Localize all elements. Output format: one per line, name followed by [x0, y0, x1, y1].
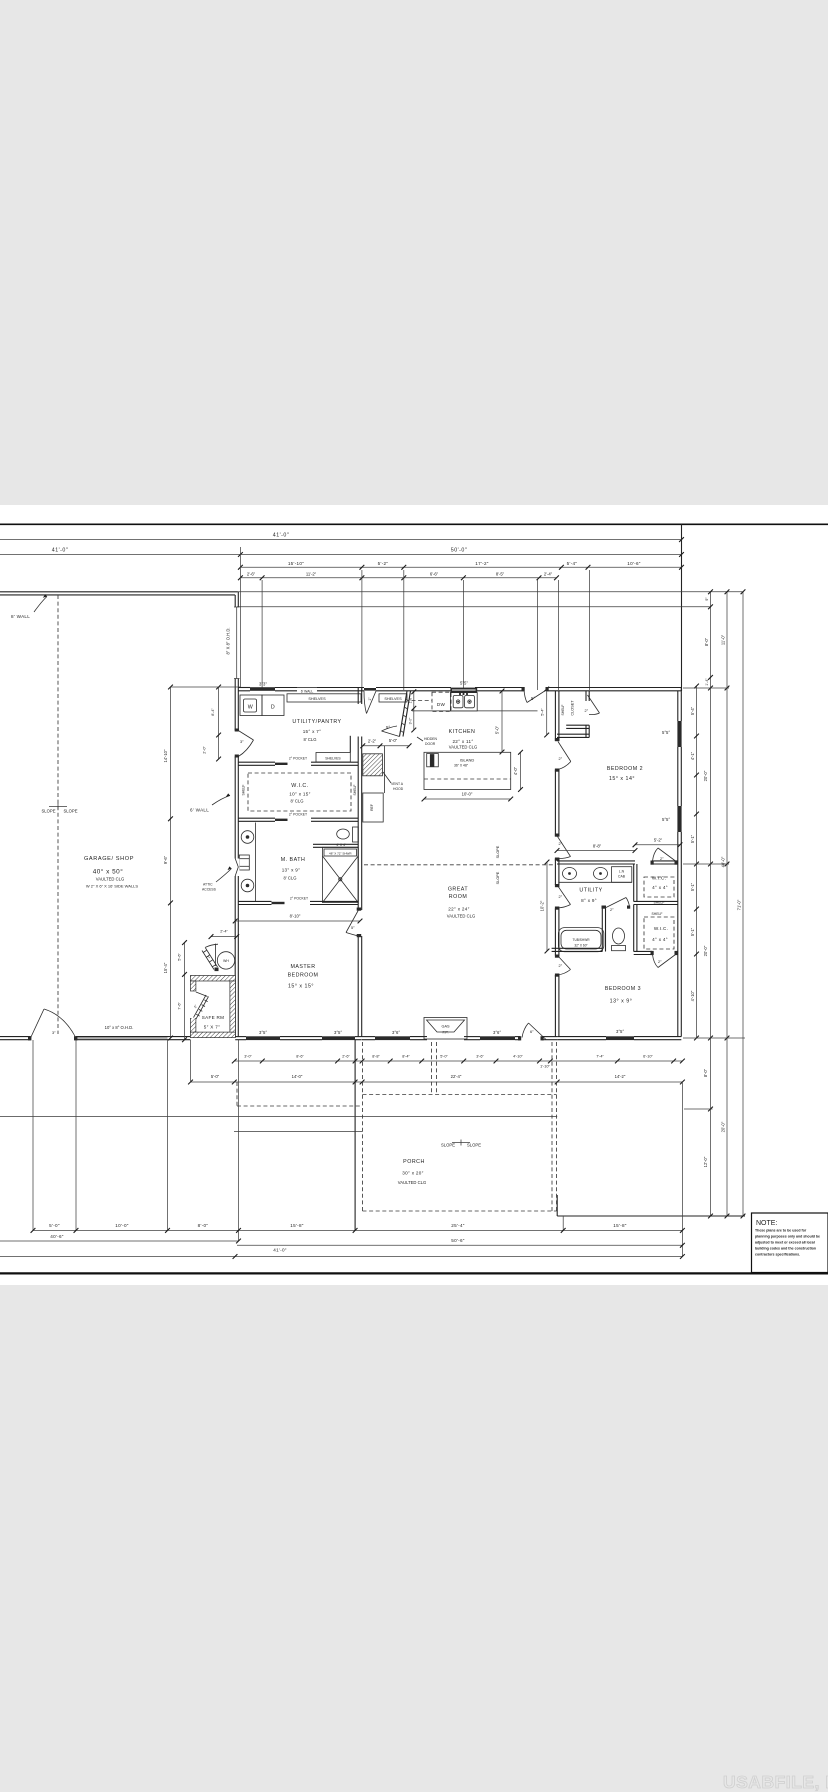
- left dim column (5'-6",7'-6"): [178, 940, 187, 1042]
- svg-text:adjusted to meet or exceed all: adjusted to meet or exceed all local: [755, 1241, 815, 1245]
- WIC2: [634, 905, 652, 955]
- svg-text:building codes and the constru: building codes and the construction: [755, 1247, 816, 1251]
- svg-text:M. BATH: M. BATH: [281, 857, 306, 863]
- bath/bedroom3 wall: [552, 948, 603, 951]
- svg-text:BEDROOM 2: BEDROOM 2: [607, 766, 643, 772]
- second bottom dim row: [188, 1074, 685, 1084]
- svg-text:14'-10": 14'-10": [163, 749, 168, 763]
- svg-text:MASTER: MASTER: [290, 964, 315, 970]
- svg-text:15'-8": 15'-8": [290, 1223, 304, 1228]
- svg-text:5° X 7°: 5° X 7°: [204, 1025, 221, 1030]
- sheet bottom border: [0, 1272, 828, 1274]
- safe room label: [202, 1015, 225, 1030]
- bedroom2 lower door: [558, 837, 571, 859]
- svg-text:ROOM: ROOM: [449, 894, 467, 900]
- 10x8 OHD opening (thin sill): [76, 1037, 168, 1039]
- great room ridge dashed: [364, 864, 555, 866]
- svg-text:12'-0": 12'-0": [703, 1156, 708, 1167]
- right-side connectors: [683, 688, 745, 1109]
- svg-text:4'-10": 4'-10": [513, 1055, 523, 1059]
- svg-text:CLOSET: CLOSET: [571, 700, 575, 716]
- dishwasher dashed: [432, 692, 451, 711]
- svg-text:40'-0": 40'-0": [721, 856, 726, 867]
- svg-text:22'-4": 22'-4": [451, 1074, 462, 1079]
- garage slope marks: [42, 804, 78, 814]
- house north wall (double) with openings: [238, 688, 681, 691]
- svg-text:3°5°: 3°5°: [259, 1030, 267, 1035]
- svg-text:SHELF: SHELF: [242, 785, 246, 796]
- svg-text:10'-6": 10'-6": [627, 561, 641, 566]
- right-side dimension column A' (room dims): [690, 684, 699, 1041]
- m.bath vanity: [239, 823, 255, 902]
- svg-text:2°: 2°: [610, 908, 614, 912]
- svg-text:8'-4": 8'-4": [211, 708, 215, 716]
- tub/shwr: [558, 928, 603, 952]
- closet door: [588, 695, 600, 715]
- garage top wall (double): [0, 592, 238, 595]
- east wall windows: [677, 721, 681, 747]
- svg-text:3°: 3°: [240, 740, 244, 744]
- utility bath vanity: [558, 867, 631, 883]
- interior dim column left of pantry: [171, 685, 241, 762]
- svg-text:5°: 5°: [351, 926, 355, 930]
- WIC1 (bedroom2 closet SE): [634, 864, 678, 905]
- pocket door pantry/WIC wall: [238, 762, 358, 765]
- pantry angled east wall (hidden door wall): [400, 691, 411, 737]
- svg-text:5'-0": 5'-0": [211, 1074, 220, 1079]
- svg-text:8'-10": 8'-10": [290, 914, 301, 919]
- kitchen counter along north wall: [412, 710, 538, 712]
- WIC/M.BATH wall with pocket door: [238, 818, 358, 821]
- svg-text:20'-0": 20'-0": [721, 1121, 726, 1132]
- top dimension row 1: 41'-0": [0, 533, 684, 542]
- porch door from great room: [522, 1023, 546, 1040]
- svg-text:3°6°: 3°6°: [392, 1030, 400, 1035]
- svg-text:3°3°: 3°3°: [259, 682, 267, 687]
- svg-text:14'-2": 14'-2": [615, 1074, 626, 1079]
- svg-text:40'-6": 40'-6": [50, 1234, 64, 1239]
- svg-text:2'-4": 2'-4": [220, 930, 228, 934]
- master bedroom 8'-10" dim: [233, 914, 363, 924]
- svg-text:W: W: [248, 705, 254, 711]
- svg-text:4' X 4': 4' X 4': [336, 843, 346, 847]
- svg-text:NOTE:: NOTE:: [756, 1220, 777, 1227]
- svg-text:32" X 60": 32" X 60": [574, 944, 587, 948]
- svg-text:15'-8": 15'-8": [613, 1223, 627, 1228]
- svg-text:6'-6": 6'-6": [430, 572, 439, 577]
- bedroom3 door: [558, 956, 571, 976]
- safe room hatched walls: [190, 976, 235, 1038]
- svg-text:25'-4": 25'-4": [451, 1223, 465, 1228]
- svg-text:6°: 6°: [530, 1030, 534, 1034]
- svg-text:WH: WH: [223, 959, 229, 963]
- right-side dimension column A: [703, 589, 713, 1218]
- bedroom2 / great room wall: [555, 691, 559, 1037]
- house east wall (double): [678, 688, 682, 1037]
- svg-text:17'-2": 17'-2": [475, 561, 489, 566]
- svg-text:L.N: L.N: [619, 870, 625, 874]
- sheet top border: [0, 523, 828, 525]
- svg-text:10° x 15°: 10° x 15°: [289, 792, 310, 797]
- svg-text:8'-8": 8'-8": [593, 844, 602, 849]
- svg-text:3°5°: 3°5°: [334, 1030, 342, 1035]
- range with vent hood: [363, 754, 383, 776]
- svg-text:8'-5": 8'-5": [496, 572, 505, 577]
- porch left solid edge: [354, 1040, 356, 1231]
- island 10'-0" dim: [422, 792, 514, 802]
- 6' wall note: [190, 793, 230, 812]
- master south wall windows: [246, 1036, 280, 1040]
- svg-text:22° x 24°: 22° x 24°: [448, 907, 469, 912]
- svg-text:5'-1": 5'-1": [690, 882, 695, 891]
- shelves at pantry south wall: [349, 736, 351, 753]
- dimension extension verticals to house north wall: [240, 547, 589, 690]
- bedroom3 south wall + window: [557, 1037, 681, 1040]
- great room label: [447, 887, 475, 919]
- svg-text:36" X 48": 36" X 48": [454, 764, 469, 768]
- svg-text:REF: REF: [370, 804, 374, 811]
- svg-text:8° x 9°: 8° x 9°: [581, 898, 597, 903]
- svg-text:CAB: CAB: [618, 875, 626, 879]
- bottom wall dim row (openings): [232, 1055, 685, 1069]
- island: [424, 752, 511, 789]
- utility/pantry W and D appliances: [240, 695, 284, 716]
- svg-text:W.I.C.: W.I.C.: [654, 926, 668, 931]
- svg-text:SLOPE: SLOPE: [496, 871, 500, 884]
- svg-text:SLOPE: SLOPE: [441, 1143, 455, 1148]
- bottom dim row 2 right 50'-6": [237, 1238, 685, 1248]
- hidden door leaf and arc: [382, 726, 400, 737]
- svg-text:8'-8": 8'-8": [372, 1055, 380, 1059]
- bedroom3 label: [605, 986, 641, 1005]
- svg-text:5'-0": 5'-0": [49, 1223, 60, 1228]
- svg-text:15° x 7°: 15° x 7°: [303, 729, 322, 734]
- svg-text:5'-0": 5'-0": [495, 725, 500, 734]
- refrigerator: [363, 746, 385, 822]
- svg-text:2'-6": 2'-6": [342, 1055, 350, 1059]
- bottom dim row 1: [31, 1223, 685, 1233]
- svg-text:8'-0": 8'-0": [198, 1223, 209, 1228]
- kitchen 5'-0" vertical dim: [495, 689, 505, 755]
- svg-text:3°5°: 3°5°: [616, 1029, 624, 1034]
- svg-text:2°: 2°: [658, 960, 662, 964]
- right-side dimension column C: 71'-0": [737, 589, 746, 1218]
- svg-text:2°: 2°: [585, 709, 589, 713]
- svg-text:5'-2": 5'-2": [654, 838, 663, 843]
- svg-text:48" X 72" SHWR: 48" X 72" SHWR: [329, 852, 352, 856]
- svg-text:40° x 50°: 40° x 50°: [93, 868, 124, 876]
- bottom porch line to right columns: [557, 1215, 745, 1217]
- svg-text:SHELF: SHELF: [561, 705, 565, 716]
- svg-text:SHELVES: SHELVES: [384, 697, 402, 701]
- 8x8 OHD opening jambs: [234, 607, 240, 679]
- svg-text:2°: 2°: [559, 757, 563, 761]
- svg-text:W.I.C.: W.I.C.: [291, 783, 308, 789]
- svg-text:ATTIC: ATTIC: [203, 883, 213, 887]
- svg-text:2° POCKET: 2° POCKET: [289, 813, 307, 817]
- 2'-2" and 5'-0" dims at range corner: [360, 738, 411, 748]
- svg-text:13° x 9°: 13° x 9°: [610, 999, 633, 1005]
- porch dashed outline: [237, 1042, 557, 1211]
- svg-text:2°: 2°: [559, 895, 563, 899]
- svg-text:3°6°: 3°6°: [493, 1030, 501, 1035]
- svg-text:SLOPE: SLOPE: [467, 1143, 481, 1148]
- svg-text:8'-6": 8'-6": [296, 1055, 304, 1059]
- svg-text:VAULTED CLG: VAULTED CLG: [96, 877, 124, 882]
- svg-text:15° x 15°: 15° x 15°: [288, 984, 314, 990]
- svg-text:BEDROOM: BEDROOM: [288, 973, 319, 979]
- svg-text:4° x 4°: 4° x 4°: [652, 885, 668, 890]
- svg-text:HIDDEN: HIDDEN: [424, 737, 438, 741]
- 8' wall note with arrow: [11, 594, 47, 619]
- m.bath/master wall with pocket door: [238, 901, 358, 904]
- top gray band: [0, 0, 828, 505]
- porch label: [398, 1159, 426, 1185]
- svg-text:2° POCKET: 2° POCKET: [289, 757, 307, 761]
- svg-text:50'-0": 50'-0": [451, 548, 468, 554]
- m.bath toilet: [337, 827, 359, 842]
- door jamb blocks: [28, 687, 678, 1040]
- master WIC room: [242, 773, 352, 811]
- roof eave lines above house: [237, 591, 743, 593]
- garage room label: [84, 856, 138, 889]
- north wall window (utility): [250, 687, 275, 691]
- svg-text:GARAGE/ SHOP: GARAGE/ SHOP: [84, 856, 134, 862]
- svg-text:2'-2": 2'-2": [368, 739, 377, 744]
- kitchen label: [449, 729, 478, 750]
- svg-text:41'-0": 41'-0": [273, 1248, 287, 1253]
- safe room door: [189, 992, 197, 1018]
- svg-text:1'-10": 1'-10": [540, 1065, 550, 1069]
- svg-text:15'-10": 15'-10": [288, 561, 304, 566]
- garage south wall with openings: [0, 1037, 190, 1040]
- toilet: [612, 928, 626, 951]
- svg-text:22° x 11°: 22° x 11°: [452, 739, 473, 744]
- svg-text:5°: 5°: [531, 696, 535, 701]
- svg-text:41'-0": 41'-0": [273, 533, 290, 539]
- great room south windows: [375, 1036, 410, 1040]
- garage east wall / house west wall: [235, 592, 238, 1037]
- svg-text:11'-2": 11'-2": [306, 572, 317, 577]
- bottom gray band: [0, 1285, 828, 1792]
- svg-text:VENT A: VENT A: [391, 782, 404, 786]
- svg-text:5'-4": 5'-4": [567, 561, 578, 566]
- svg-text:W.I.C.: W.I.C.: [652, 876, 666, 881]
- svg-text:TUB/SHWR: TUB/SHWR: [573, 938, 591, 942]
- great room south wall: [362, 1037, 557, 1040]
- svg-text:6'-10": 6'-10": [643, 1055, 653, 1059]
- svg-text:DOOR: DOOR: [425, 742, 436, 746]
- svg-text:3'-6": 3'-6": [476, 1055, 484, 1059]
- svg-text:8° X 8° O.H.D.: 8° X 8° O.H.D.: [226, 627, 231, 654]
- svg-text:1'-4": 1'-4": [705, 678, 709, 686]
- svg-text:UTILITY/PANTRY: UTILITY/PANTRY: [292, 719, 341, 725]
- shelves along pantry north wall: [287, 694, 407, 702]
- attic access note: [202, 859, 240, 892]
- kitchen back door: [524, 690, 547, 703]
- svg-text:DW: DW: [437, 702, 446, 707]
- svg-text:5'-1": 5'-1": [690, 834, 695, 843]
- patio slab line: [234, 1131, 362, 1133]
- svg-text:8'-4": 8'-4": [402, 1055, 410, 1059]
- svg-text:PORCH: PORCH: [403, 1159, 425, 1165]
- utility label: [579, 888, 602, 904]
- m.bath label: [281, 857, 306, 881]
- svg-text:USABFILE, LLC: USABFILE, LLC: [723, 1772, 828, 1792]
- svg-text:10'-0": 10'-0": [115, 1223, 129, 1228]
- safe room dim extension: [190, 1040, 192, 1082]
- svg-text:15'-4": 15'-4": [163, 962, 168, 973]
- gas fireplace: [424, 1018, 467, 1040]
- svg-text:SHELF: SHELF: [652, 912, 663, 916]
- svg-text:5'-6": 5'-6": [178, 953, 182, 961]
- svg-text:2°: 2°: [660, 857, 664, 861]
- master south wall segments: [235, 1037, 362, 1040]
- 2'-4" dim above WH: [209, 930, 240, 939]
- svg-text:41'-0": 41'-0": [52, 548, 69, 554]
- bedroom2 closet: [557, 691, 589, 737]
- bottom dim row 2 left 40'-6": [0, 1234, 241, 1243]
- svg-text:10'-0": 10'-0": [462, 792, 473, 797]
- kitchen sink window: [450, 688, 477, 693]
- utility bath door: [558, 886, 571, 909]
- svg-text:4'-0": 4'-0": [513, 766, 518, 775]
- top dimension row 3: 15'-10" 5'-2" 17'-2" 5'-4" 10'-6": [238, 561, 684, 570]
- svg-text:8'-0": 8'-0": [704, 637, 709, 646]
- svg-text:8' CLG: 8' CLG: [304, 737, 317, 742]
- svg-text:5'-0": 5'-0": [440, 1055, 448, 1059]
- svg-text:SHELVES: SHELVES: [308, 697, 326, 701]
- svg-text:11'-0": 11'-0": [721, 634, 726, 645]
- bottom dim extension verticals: [33, 1040, 682, 1257]
- svg-text:2° POCKET: 2° POCKET: [290, 897, 308, 901]
- svg-text:SHELF: SHELF: [654, 901, 665, 905]
- WIC1 door from bedroom2: [653, 848, 676, 861]
- door garage to utility: [238, 731, 253, 757]
- svg-text:GAS: GAS: [441, 1025, 449, 1029]
- master entry door: [346, 911, 358, 937]
- svg-text:6' WALL: 6' WALL: [190, 808, 209, 813]
- svg-text:8' CLG: 8' CLG: [284, 876, 297, 881]
- svg-text:50'-6": 50'-6": [451, 1238, 465, 1243]
- svg-text:planning purposes only and sho: planning purposes only and should be: [755, 1235, 820, 1239]
- master bedroom label: [288, 964, 319, 990]
- svg-text:20'-0": 20'-0": [703, 770, 708, 781]
- svg-text:3°: 3°: [52, 1031, 56, 1035]
- svg-text:BEDROOM 3: BEDROOM 3: [605, 986, 641, 992]
- bedroom2 south wall: [557, 861, 678, 864]
- pantry gap vertical dims: [409, 689, 417, 732]
- kitchen sink: [450, 693, 477, 711]
- svg-text:VAULTED CLG: VAULTED CLG: [449, 745, 477, 750]
- svg-text:5°: 5°: [386, 725, 390, 730]
- svg-text:5°5°: 5°5°: [662, 817, 670, 822]
- svg-text:VAULTED CLG: VAULTED CLG: [447, 914, 475, 919]
- svg-text:15° x 14°: 15° x 14°: [609, 776, 635, 782]
- svg-text:5'-0": 5'-0": [389, 738, 398, 743]
- svg-text:These plans are to be used for: These plans are to be used for: [755, 1229, 807, 1233]
- svg-text:2°: 2°: [559, 964, 563, 968]
- svg-text:8' WALL: 8' WALL: [11, 614, 30, 619]
- m.bath shower: [313, 844, 358, 847]
- svg-text:10° x 8° O.H.D.: 10° x 8° O.H.D.: [105, 1025, 134, 1030]
- svg-text:2'-4": 2'-4": [544, 572, 553, 577]
- master wing east wall: [358, 688, 362, 1037]
- svg-text:3'-0": 3'-0": [244, 1055, 252, 1059]
- svg-text:VAULTED CLG: VAULTED CLG: [398, 1180, 426, 1185]
- water heater niche: [202, 944, 235, 972]
- svg-text:GREAT: GREAT: [448, 887, 469, 893]
- svg-text:6' WALL: 6' WALL: [301, 690, 314, 694]
- NOTE box: [752, 1213, 828, 1273]
- svg-text:5°5°: 5°5°: [662, 730, 670, 735]
- utility bath partition and door: [602, 908, 605, 952]
- svg-text:7'-4": 7'-4": [596, 1055, 604, 1059]
- bottom dim row 3 41'-0": [0, 1248, 685, 1259]
- bedroom2 interior dims: [555, 838, 683, 853]
- top dimension row 2: 41'-0" / 50'-0": [0, 548, 684, 557]
- top dimension row 4: 2'-6" 11'-2" 6'-6" 8'-5" 2'-4": [238, 572, 559, 581]
- svg-text:1'-6": 1'-6": [409, 696, 413, 704]
- svg-text:KITCHEN: KITCHEN: [449, 729, 476, 735]
- island end cabinet: [427, 754, 439, 767]
- svg-text:HOOD: HOOD: [393, 787, 404, 791]
- svg-text:7'-6": 7'-6": [178, 1002, 182, 1010]
- island 4'-0" dim: [513, 750, 523, 792]
- sidewalk line: [0, 1116, 557, 1118]
- svg-text:ISLAND: ISLAND: [460, 758, 475, 763]
- svg-text:SAFE RM: SAFE RM: [202, 1015, 225, 1020]
- svg-text:30° x 20°: 30° x 20°: [402, 1171, 423, 1176]
- WIC2 door: [653, 955, 676, 968]
- svg-text:2'-6": 2'-6": [247, 572, 256, 577]
- svg-text:ACCESS: ACCESS: [202, 888, 217, 892]
- svg-text:13° x 9°: 13° x 9°: [282, 868, 301, 873]
- svg-text:W 2" X 6" X 16' SIDE WALLS: W 2" X 6" X 16' SIDE WALLS: [86, 884, 138, 889]
- svg-text:5'-2": 5'-2": [378, 561, 389, 566]
- utility/pantry room label: [292, 719, 341, 742]
- garage entry door bottom-left: [31, 1009, 77, 1038]
- garage left interior dim column: [163, 685, 173, 1041]
- svg-text:F.P.: F.P.: [442, 1031, 448, 1035]
- svg-text:71'-0": 71'-0": [737, 899, 742, 910]
- svg-text:4'-10": 4'-10": [690, 990, 695, 1001]
- svg-text:8' CLG: 8' CLG: [291, 799, 304, 804]
- svg-text:D: D: [271, 705, 275, 711]
- svg-text:SLOPE: SLOPE: [42, 809, 56, 814]
- bedroom2 label: [607, 766, 643, 782]
- svg-text:2'-0": 2'-0": [203, 746, 207, 754]
- svg-text:SHELF: SHELF: [353, 785, 357, 796]
- svg-text:4° x 4°: 4° x 4°: [652, 937, 668, 942]
- garage ridge dashed line: [57, 595, 59, 1034]
- porch slope marks: [441, 1140, 481, 1148]
- svg-text:20'-0": 20'-0": [703, 945, 708, 956]
- svg-text:UTILITY: UTILITY: [579, 888, 602, 894]
- svg-text:10'-2": 10'-2": [540, 900, 545, 911]
- svg-text:5'-4": 5'-4": [541, 708, 545, 716]
- svg-text:5'-4": 5'-4": [690, 706, 695, 715]
- svg-text:5°5°: 5°5°: [460, 681, 468, 686]
- bedroom2 upper door: [558, 742, 571, 770]
- svg-text:SLOPE: SLOPE: [496, 845, 500, 858]
- svg-text:14'-0": 14'-0": [292, 1074, 303, 1079]
- svg-text:SHELVES: SHELVES: [325, 757, 341, 761]
- svg-text:5'-1": 5'-1": [690, 927, 695, 936]
- svg-text:2°: 2°: [559, 842, 563, 846]
- right-side dimension column B: [721, 589, 730, 1218]
- pantry pocket door panel in north wall: [364, 688, 376, 691]
